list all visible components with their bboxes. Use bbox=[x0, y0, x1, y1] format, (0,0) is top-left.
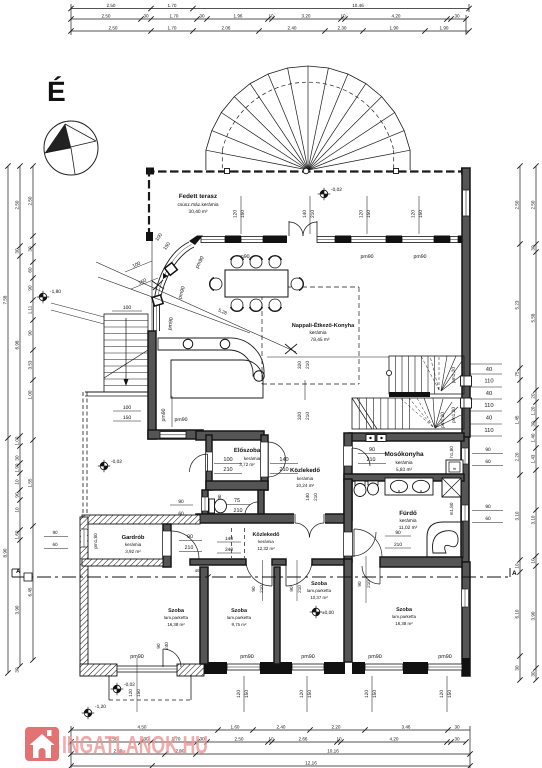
svg-text:-1,20: -1,20 bbox=[95, 704, 106, 710]
svg-text:1.11: 1.11 bbox=[27, 305, 32, 314]
svg-text:12,16: 12,16 bbox=[305, 760, 317, 765]
svg-text:40: 40 bbox=[486, 390, 492, 397]
svg-text:210: 210 bbox=[366, 580, 371, 588]
svg-text:150: 150 bbox=[307, 690, 313, 698]
svg-text:1.55: 1.55 bbox=[27, 478, 32, 487]
svg-text:120: 120 bbox=[233, 210, 239, 218]
svg-text:Szoba: Szoba bbox=[311, 581, 328, 587]
svg-text:Szoba: Szoba bbox=[231, 608, 248, 614]
svg-text:210: 210 bbox=[185, 545, 194, 551]
svg-text:90: 90 bbox=[14, 492, 19, 498]
svg-text:150: 150 bbox=[372, 690, 378, 698]
svg-text:3,72 m²: 3,72 m² bbox=[239, 462, 255, 467]
svg-text:6.10: 6.10 bbox=[514, 609, 519, 618]
svg-text:30: 30 bbox=[27, 246, 32, 252]
svg-text:140: 140 bbox=[305, 493, 310, 501]
svg-text:pm90: pm90 bbox=[301, 654, 315, 660]
svg-text:1.70: 1.70 bbox=[168, 3, 177, 8]
svg-text:2.40: 2.40 bbox=[277, 724, 286, 729]
svg-text:m1,80: m1,80 bbox=[449, 502, 454, 515]
svg-text:110: 110 bbox=[484, 378, 493, 385]
svg-text:10: 10 bbox=[340, 13, 346, 18]
svg-text:90: 90 bbox=[52, 530, 58, 535]
svg-text:11,02 m²: 11,02 m² bbox=[399, 525, 418, 531]
svg-text:30: 30 bbox=[14, 248, 19, 254]
svg-text:16,38 m²: 16,38 m² bbox=[167, 622, 185, 627]
svg-text:kerámia: kerámia bbox=[258, 539, 274, 544]
svg-text:1.00: 1.00 bbox=[14, 436, 19, 445]
svg-text:90: 90 bbox=[485, 447, 491, 453]
svg-text:10: 10 bbox=[14, 507, 19, 513]
svg-text:90: 90 bbox=[369, 447, 375, 453]
svg-text:8.90: 8.90 bbox=[2, 548, 7, 557]
svg-text:2.06: 2.06 bbox=[222, 25, 231, 30]
svg-text:3,92 m²: 3,92 m² bbox=[125, 549, 141, 554]
svg-text:2.20: 2.20 bbox=[514, 452, 519, 461]
svg-text:120: 120 bbox=[359, 210, 365, 218]
svg-text:30: 30 bbox=[14, 455, 19, 461]
svg-text:2.20: 2.20 bbox=[332, 724, 341, 729]
svg-text:pm1,20: pm1,20 bbox=[451, 367, 457, 383]
svg-text:120: 120 bbox=[411, 210, 417, 218]
svg-text:6.45: 6.45 bbox=[27, 587, 32, 596]
svg-text:90: 90 bbox=[395, 530, 401, 536]
svg-text:30: 30 bbox=[143, 13, 149, 18]
svg-text:1.90: 1.90 bbox=[440, 25, 449, 30]
svg-text:150: 150 bbox=[136, 689, 141, 697]
svg-text:3.53: 3.53 bbox=[27, 360, 32, 369]
svg-text:kerámia: kerámia bbox=[244, 456, 261, 461]
svg-text:-0,02: -0,02 bbox=[124, 682, 135, 688]
svg-text:kerámia: kerámia bbox=[125, 542, 142, 547]
svg-text:4.20: 4.20 bbox=[392, 13, 401, 18]
svg-text:7.58: 7.58 bbox=[2, 295, 7, 304]
svg-text:12,32 m²: 12,32 m² bbox=[257, 546, 275, 551]
svg-text:120: 120 bbox=[299, 690, 305, 698]
svg-text:2.50: 2.50 bbox=[102, 13, 111, 18]
svg-text:90: 90 bbox=[156, 643, 161, 649]
svg-text:csúsz.máz.kerámia: csúsz.máz.kerámia bbox=[177, 202, 218, 208]
svg-text:2.40: 2.40 bbox=[288, 25, 297, 30]
svg-text:40: 40 bbox=[486, 366, 492, 373]
svg-text:210: 210 bbox=[305, 412, 311, 420]
svg-text:210: 210 bbox=[279, 467, 288, 473]
svg-text:90: 90 bbox=[27, 330, 32, 336]
svg-text:60: 60 bbox=[52, 542, 58, 547]
svg-text:120: 120 bbox=[364, 690, 370, 698]
svg-text:1.43: 1.43 bbox=[530, 454, 535, 463]
svg-text:30: 30 bbox=[454, 13, 460, 18]
svg-text:10: 10 bbox=[514, 563, 519, 569]
svg-text:100: 100 bbox=[223, 457, 232, 463]
svg-text:240: 240 bbox=[164, 642, 169, 650]
svg-text:1.20: 1.20 bbox=[530, 406, 535, 415]
svg-text:1.00: 1.00 bbox=[27, 390, 32, 399]
svg-text:1.60: 1.60 bbox=[231, 724, 240, 729]
svg-text:1.70: 1.70 bbox=[168, 25, 177, 30]
svg-text:9,75 m²: 9,75 m² bbox=[232, 622, 247, 627]
svg-text:-0,02: -0,02 bbox=[111, 459, 122, 465]
svg-text:5.58: 5.58 bbox=[530, 313, 535, 322]
svg-text:Mosókonyha: Mosókonyha bbox=[384, 451, 424, 458]
svg-text:2.50: 2.50 bbox=[14, 200, 19, 209]
svg-text:90: 90 bbox=[178, 499, 184, 505]
svg-text:Fürdő: Fürdő bbox=[399, 510, 417, 517]
svg-text:210: 210 bbox=[297, 585, 302, 593]
svg-text:4.20: 4.20 bbox=[390, 736, 399, 741]
svg-text:1.40: 1.40 bbox=[530, 433, 535, 442]
svg-text:Közlekedő: Közlekedő bbox=[253, 532, 281, 538]
svg-text:30: 30 bbox=[14, 667, 19, 673]
svg-text:Közlekedő: Közlekedő bbox=[290, 467, 320, 474]
svg-text:140: 140 bbox=[302, 210, 308, 218]
svg-text:lam.parketta: lam.parketta bbox=[392, 614, 417, 619]
svg-text:kerámia: kerámia bbox=[309, 330, 326, 336]
svg-text:110: 110 bbox=[484, 427, 493, 434]
svg-text:140: 140 bbox=[225, 536, 233, 542]
svg-text:6.98: 6.98 bbox=[14, 340, 19, 349]
svg-text:2.50: 2.50 bbox=[514, 200, 519, 209]
svg-text:150: 150 bbox=[240, 210, 246, 218]
svg-text:10: 10 bbox=[530, 558, 535, 564]
svg-text:140: 140 bbox=[279, 457, 288, 463]
svg-text:Fedett terasz: Fedett terasz bbox=[179, 193, 217, 200]
svg-text:1.96: 1.96 bbox=[234, 13, 243, 18]
svg-text:pm90: pm90 bbox=[175, 417, 188, 423]
svg-text:INGATLANOK.HU: INGATLANOK.HU bbox=[62, 732, 208, 759]
svg-text:5,83 m²: 5,83 m² bbox=[396, 467, 413, 473]
svg-text:2.66: 2.66 bbox=[299, 736, 308, 741]
svg-text:1.60: 1.60 bbox=[14, 530, 19, 539]
svg-text:30,40 m²: 30,40 m² bbox=[189, 209, 208, 215]
svg-text:150: 150 bbox=[244, 690, 250, 698]
svg-text:75: 75 bbox=[234, 498, 240, 504]
svg-text:Nappali-Étkező-Konyha: Nappali-Étkező-Konyha bbox=[292, 322, 355, 329]
svg-text:60: 60 bbox=[485, 459, 491, 465]
svg-text:120: 120 bbox=[128, 689, 133, 697]
svg-text:110: 110 bbox=[484, 402, 493, 409]
svg-text:20: 20 bbox=[530, 393, 535, 399]
svg-text:É: É bbox=[47, 76, 66, 107]
svg-text:90: 90 bbox=[217, 494, 222, 499]
svg-text:240: 240 bbox=[225, 547, 233, 553]
svg-text:40: 40 bbox=[486, 415, 492, 422]
svg-text:3.46: 3.46 bbox=[402, 724, 411, 729]
svg-text:30: 30 bbox=[530, 671, 535, 677]
svg-text:lam.parketta: lam.parketta bbox=[307, 588, 332, 593]
svg-text:78,45 m²: 78,45 m² bbox=[311, 337, 330, 343]
svg-text:60: 60 bbox=[27, 267, 32, 273]
svg-text:A: A bbox=[512, 570, 517, 577]
svg-text:5.23: 5.23 bbox=[514, 300, 519, 309]
svg-text:10.46: 10.46 bbox=[352, 3, 364, 8]
svg-text:pm90: pm90 bbox=[414, 254, 427, 260]
svg-text:pm90: pm90 bbox=[368, 654, 382, 660]
svg-text:1.90: 1.90 bbox=[390, 25, 399, 30]
svg-text:3.90: 3.90 bbox=[14, 605, 19, 614]
svg-text:10: 10 bbox=[268, 736, 274, 741]
svg-text:1.45: 1.45 bbox=[514, 415, 519, 424]
svg-text:10,16: 10,16 bbox=[327, 748, 339, 753]
svg-text:10,24 m²: 10,24 m² bbox=[296, 483, 315, 488]
svg-text:210: 210 bbox=[259, 585, 264, 593]
svg-text:210: 210 bbox=[234, 508, 243, 514]
svg-text:pm90: pm90 bbox=[438, 654, 452, 660]
svg-text:90: 90 bbox=[485, 504, 491, 510]
svg-text:90: 90 bbox=[289, 586, 294, 592]
svg-text:±0,00: ±0,00 bbox=[322, 610, 334, 616]
svg-text:210: 210 bbox=[223, 467, 232, 473]
svg-text:10: 10 bbox=[14, 479, 19, 485]
svg-text:16,38 m²: 16,38 m² bbox=[395, 621, 413, 626]
svg-text:3.90: 3.90 bbox=[530, 611, 535, 620]
svg-text:30: 30 bbox=[199, 13, 205, 18]
svg-text:60: 60 bbox=[485, 516, 491, 522]
svg-text:4.50: 4.50 bbox=[138, 724, 147, 729]
svg-text:100: 100 bbox=[123, 405, 132, 411]
svg-text:320: 320 bbox=[297, 412, 303, 420]
svg-text:30: 30 bbox=[454, 736, 460, 741]
svg-text:pm1,80: pm1,80 bbox=[93, 533, 98, 549]
svg-text:210: 210 bbox=[310, 210, 316, 218]
svg-text:pm1,20: pm1,20 bbox=[440, 412, 446, 428]
svg-text:kerámia: kerámia bbox=[297, 476, 314, 481]
svg-text:2.50: 2.50 bbox=[109, 25, 118, 30]
svg-text:2.50: 2.50 bbox=[27, 196, 32, 205]
svg-text:3.10: 3.10 bbox=[530, 515, 535, 524]
svg-text:kerámia: kerámia bbox=[399, 518, 416, 524]
svg-text:90: 90 bbox=[251, 586, 256, 592]
svg-text:1.90: 1.90 bbox=[14, 463, 19, 472]
svg-text:100: 100 bbox=[123, 305, 132, 311]
svg-text:150: 150 bbox=[418, 210, 424, 218]
svg-text:40: 40 bbox=[195, 568, 200, 573]
svg-text:120: 120 bbox=[236, 690, 242, 698]
svg-text:320: 320 bbox=[297, 361, 303, 369]
svg-text:120: 120 bbox=[439, 690, 445, 698]
svg-text:2.50: 2.50 bbox=[530, 200, 535, 209]
svg-text:lam.parketta: lam.parketta bbox=[164, 615, 189, 620]
svg-text:pm90: pm90 bbox=[161, 408, 167, 421]
svg-text:30: 30 bbox=[454, 724, 460, 729]
svg-text:150: 150 bbox=[366, 210, 372, 218]
svg-text:-1,80: -1,80 bbox=[50, 289, 61, 295]
svg-text:150: 150 bbox=[447, 690, 453, 698]
svg-text:30: 30 bbox=[530, 245, 535, 251]
svg-text:pm90: pm90 bbox=[361, 254, 374, 260]
svg-text:30: 30 bbox=[530, 421, 535, 427]
svg-text:3.20: 3.20 bbox=[302, 13, 311, 18]
svg-text:lam.parketta: lam.parketta bbox=[227, 615, 252, 620]
svg-text:Szoba: Szoba bbox=[168, 608, 185, 614]
svg-text:Szoba: Szoba bbox=[396, 607, 413, 613]
svg-text:90: 90 bbox=[357, 581, 362, 587]
svg-text:3.10: 3.10 bbox=[514, 511, 519, 520]
svg-text:-0,02: -0,02 bbox=[331, 187, 342, 193]
svg-text:30: 30 bbox=[514, 665, 519, 671]
svg-text:pm90: pm90 bbox=[240, 654, 254, 660]
svg-text:210: 210 bbox=[394, 542, 402, 548]
svg-text:210: 210 bbox=[313, 493, 318, 501]
svg-text:210: 210 bbox=[305, 361, 311, 369]
svg-text:2.50: 2.50 bbox=[235, 736, 244, 741]
svg-text:2.50: 2.50 bbox=[107, 3, 116, 8]
svg-text:1.70: 1.70 bbox=[170, 13, 179, 18]
svg-text:10: 10 bbox=[268, 13, 274, 18]
svg-text:75: 75 bbox=[514, 371, 519, 377]
svg-text:2.30: 2.30 bbox=[338, 25, 347, 30]
svg-text:Előszoba: Előszoba bbox=[234, 447, 261, 454]
svg-text:pm1,20: pm1,20 bbox=[451, 407, 457, 423]
svg-text:150: 150 bbox=[123, 415, 132, 421]
svg-text:Gardrób: Gardrób bbox=[122, 534, 145, 541]
svg-text:90: 90 bbox=[27, 285, 32, 291]
svg-text:h1,80: h1,80 bbox=[449, 446, 454, 458]
svg-text:10,37 m²: 10,37 m² bbox=[310, 595, 328, 600]
svg-text:kerámia: kerámia bbox=[395, 460, 412, 466]
svg-text:210: 210 bbox=[367, 457, 376, 463]
svg-text:10: 10 bbox=[336, 736, 342, 741]
svg-text:90: 90 bbox=[187, 534, 193, 540]
